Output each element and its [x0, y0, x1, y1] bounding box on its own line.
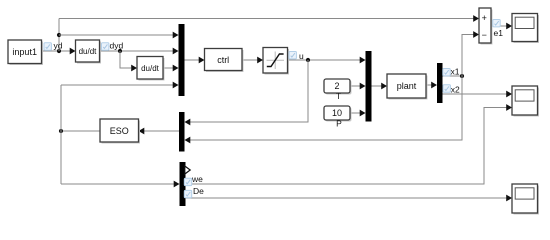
mux M2 [179, 112, 185, 152]
node dyd junction [118, 49, 122, 53]
block du/dt U1 [76, 40, 102, 64]
svg-text:ctrl: ctrl [217, 55, 229, 65]
svg-text:P: P [336, 118, 342, 128]
wire constant T to mux M3 input2 [350, 83, 366, 90]
demux D2 [180, 162, 186, 206]
block scope S3 [512, 184, 539, 215]
wire mux M1 output to ctrl [185, 57, 205, 64]
wire yd to sum plus (top long line) [59, 15, 479, 22]
wire du/dt2 to mux M1 input3 [163, 65, 179, 72]
node x1 junction [460, 74, 464, 78]
wire constant P to mux M3 input3 [350, 110, 366, 117]
block sum [479, 8, 493, 45]
svg-text:input1: input1 [12, 47, 37, 57]
wire we arrow into scope S2 input2 [506, 104, 512, 111]
block scope S2 [512, 86, 539, 117]
svg-text:x2: x2 [451, 84, 460, 94]
svg-text:+: + [482, 13, 487, 23]
badge yd [44, 43, 51, 50]
block ctrl [205, 49, 244, 73]
wire ctrl to saturation [242, 57, 263, 64]
block input1 [8, 40, 43, 65]
block saturation [263, 48, 289, 75]
wire yd input1 to du/dt [42, 48, 76, 55]
wire dyd du/dt to mux M1 input2 [100, 48, 179, 55]
wire ESO vertical branch [60, 85, 62, 184]
block plant [387, 74, 428, 100]
svg-text:u: u [299, 51, 304, 61]
wire u drop to mux M2 input1 [185, 60, 309, 125]
svg-text:we: we [191, 174, 203, 184]
node u junction [306, 58, 310, 62]
node yd junction [57, 49, 61, 53]
badge dyd [102, 43, 109, 50]
svg-text:−: − [482, 30, 487, 40]
wire plant to demux D1 [426, 82, 437, 89]
wire ESO feedback to mux M1 input4 [61, 82, 179, 89]
badge De [184, 190, 191, 197]
wire yd riser up [58, 19, 60, 52]
node ESO output junction [59, 129, 63, 133]
badge x2 [443, 85, 450, 92]
badge we [184, 178, 191, 185]
wire x1 from demux D1 [443, 75, 463, 77]
block constant 10 [324, 106, 352, 122]
wire x2 to scope S2 input1 [443, 91, 513, 98]
node yd branch junction [57, 33, 61, 37]
block scope S1 [512, 14, 539, 44]
wire De from demux D2 to scope S3 [186, 195, 513, 202]
svg-text:10: 10 [332, 108, 342, 118]
svg-text:De: De [193, 186, 204, 196]
wire yd branch to mux M1 input1 [59, 32, 179, 39]
wire we from demux D2 [186, 108, 507, 185]
svg-text:plant: plant [397, 81, 417, 91]
svg-text:e1: e1 [494, 28, 504, 38]
badge u [289, 52, 296, 59]
svg-text:2: 2 [334, 81, 339, 91]
wire x1 riser to sum minus [462, 31, 479, 76]
mux M1 [179, 24, 185, 96]
svg-text:T: T [336, 91, 341, 101]
svg-text:yd: yd [54, 41, 63, 51]
demux D1 [437, 63, 443, 103]
wire dyd branch to du/dt2 [120, 51, 137, 71]
wire ESO output left [61, 130, 100, 132]
wire mux M2 output to ESO [139, 128, 180, 135]
block constant 2 [324, 79, 352, 95]
wire mux M3 output to plant [372, 83, 388, 90]
svg-text:x1: x1 [451, 67, 460, 77]
block ESO [100, 119, 140, 144]
svg-text:dyd: dyd [110, 41, 124, 51]
block du/dt U2 [137, 57, 165, 81]
svg-text:du/dt: du/dt [79, 47, 98, 56]
wire x1 feedback to mux M2 input2 [185, 76, 463, 143]
badge e1 [493, 20, 500, 27]
svg-text:du/dt: du/dt [141, 64, 160, 73]
badge x1 [443, 69, 450, 76]
wire e1 sum to scope S1 [491, 23, 512, 30]
mux M3 [366, 51, 372, 122]
port demux D2 unconnected output [185, 166, 190, 174]
svg-text:ESO: ESO [110, 126, 129, 136]
wire u saturation to mux M3 input1 [288, 57, 366, 64]
wire ESO branch to demux D2 [61, 181, 180, 188]
